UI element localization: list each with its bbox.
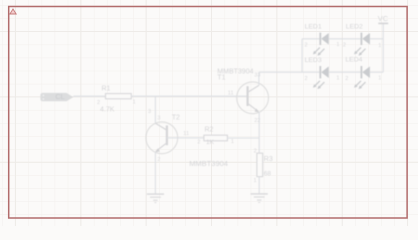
wire row1 left — [302, 38, 320, 40]
wire row1 right — [370, 38, 383, 40]
svg-text:3: 3 — [157, 115, 160, 121]
LED LED3 — [305, 57, 340, 89]
svg-text:R1: R1 — [102, 86, 111, 93]
svg-text:T2: T2 — [172, 114, 180, 121]
wire left LED bus — [301, 39, 303, 72]
wire R3 to ground — [258, 177, 260, 194]
svg-text:2: 2 — [197, 139, 200, 145]
svg-text:11: 11 — [183, 131, 189, 137]
wire node to T2 collector — [154, 96, 156, 123]
svg-text:2: 2 — [97, 100, 100, 106]
svg-text:11: 11 — [228, 90, 234, 96]
svg-text:1: 1 — [336, 42, 339, 48]
wire R1 to T1 base — [131, 95, 247, 97]
svg-text:LED1: LED1 — [305, 24, 322, 31]
ground under R3 — [251, 194, 268, 203]
svg-text:MMBT3904: MMBT3904 — [189, 159, 228, 168]
resistor R2 — [197, 126, 234, 146]
svg-text:2: 2 — [305, 43, 308, 49]
svg-text:LED4: LED4 — [345, 57, 362, 64]
svg-text:68: 68 — [264, 171, 272, 178]
wire right bus VCC stem — [382, 23, 384, 72]
svg-text:3: 3 — [148, 109, 151, 115]
wire LED rail from T1 collector — [259, 71, 302, 73]
svg-text:2: 2 — [305, 76, 308, 82]
svg-text:R3: R3 — [264, 156, 273, 163]
wire T1 collector up to LED rail — [258, 72, 260, 85]
svg-text:2: 2 — [254, 148, 257, 154]
LED LED2 — [343, 24, 381, 56]
svg-text:2: 2 — [157, 157, 160, 163]
resistor R3 — [254, 148, 273, 183]
resistor R1 — [97, 86, 136, 114]
wire row2 left — [302, 71, 320, 73]
wire row1 middle — [329, 38, 361, 40]
input net tag CL — [40, 92, 73, 101]
svg-text:T1: T1 — [217, 74, 225, 81]
svg-text:1: 1 — [254, 178, 257, 184]
svg-text:2: 2 — [345, 76, 348, 82]
wire R2 to emitter node — [227, 137, 259, 139]
svg-text:R2: R2 — [205, 126, 214, 133]
svg-text:1: 1 — [231, 139, 234, 145]
svg-text:1K: 1K — [206, 139, 215, 146]
svg-text:33: 33 — [254, 73, 260, 79]
svg-text:4.7K: 4.7K — [100, 107, 115, 114]
ground under T2 — [147, 194, 164, 203]
svg-text:1: 1 — [378, 76, 381, 82]
svg-text:CL: CL — [55, 92, 64, 101]
power VC — [378, 14, 389, 23]
transistor T1 — [217, 69, 268, 125]
LED LED4 — [345, 57, 381, 89]
svg-text:VC: VC — [378, 14, 389, 23]
svg-text:1: 1 — [336, 76, 339, 82]
wire tag to R1 — [73, 95, 105, 97]
warning triangle icon — [10, 9, 17, 15]
wire T1 emitter down to R3 — [258, 112, 260, 153]
svg-text:1: 1 — [378, 43, 381, 49]
wire row2 right — [370, 71, 383, 73]
wire row2 middle — [329, 71, 361, 73]
svg-text:2: 2 — [343, 43, 346, 49]
svg-text:LED3: LED3 — [305, 57, 322, 64]
wire T2 emitter to ground — [154, 152, 156, 194]
transistor T2 — [146, 109, 204, 163]
svg-text:LED2: LED2 — [346, 24, 363, 31]
svg-text:1: 1 — [133, 100, 136, 106]
LED LED1 — [305, 24, 340, 56]
